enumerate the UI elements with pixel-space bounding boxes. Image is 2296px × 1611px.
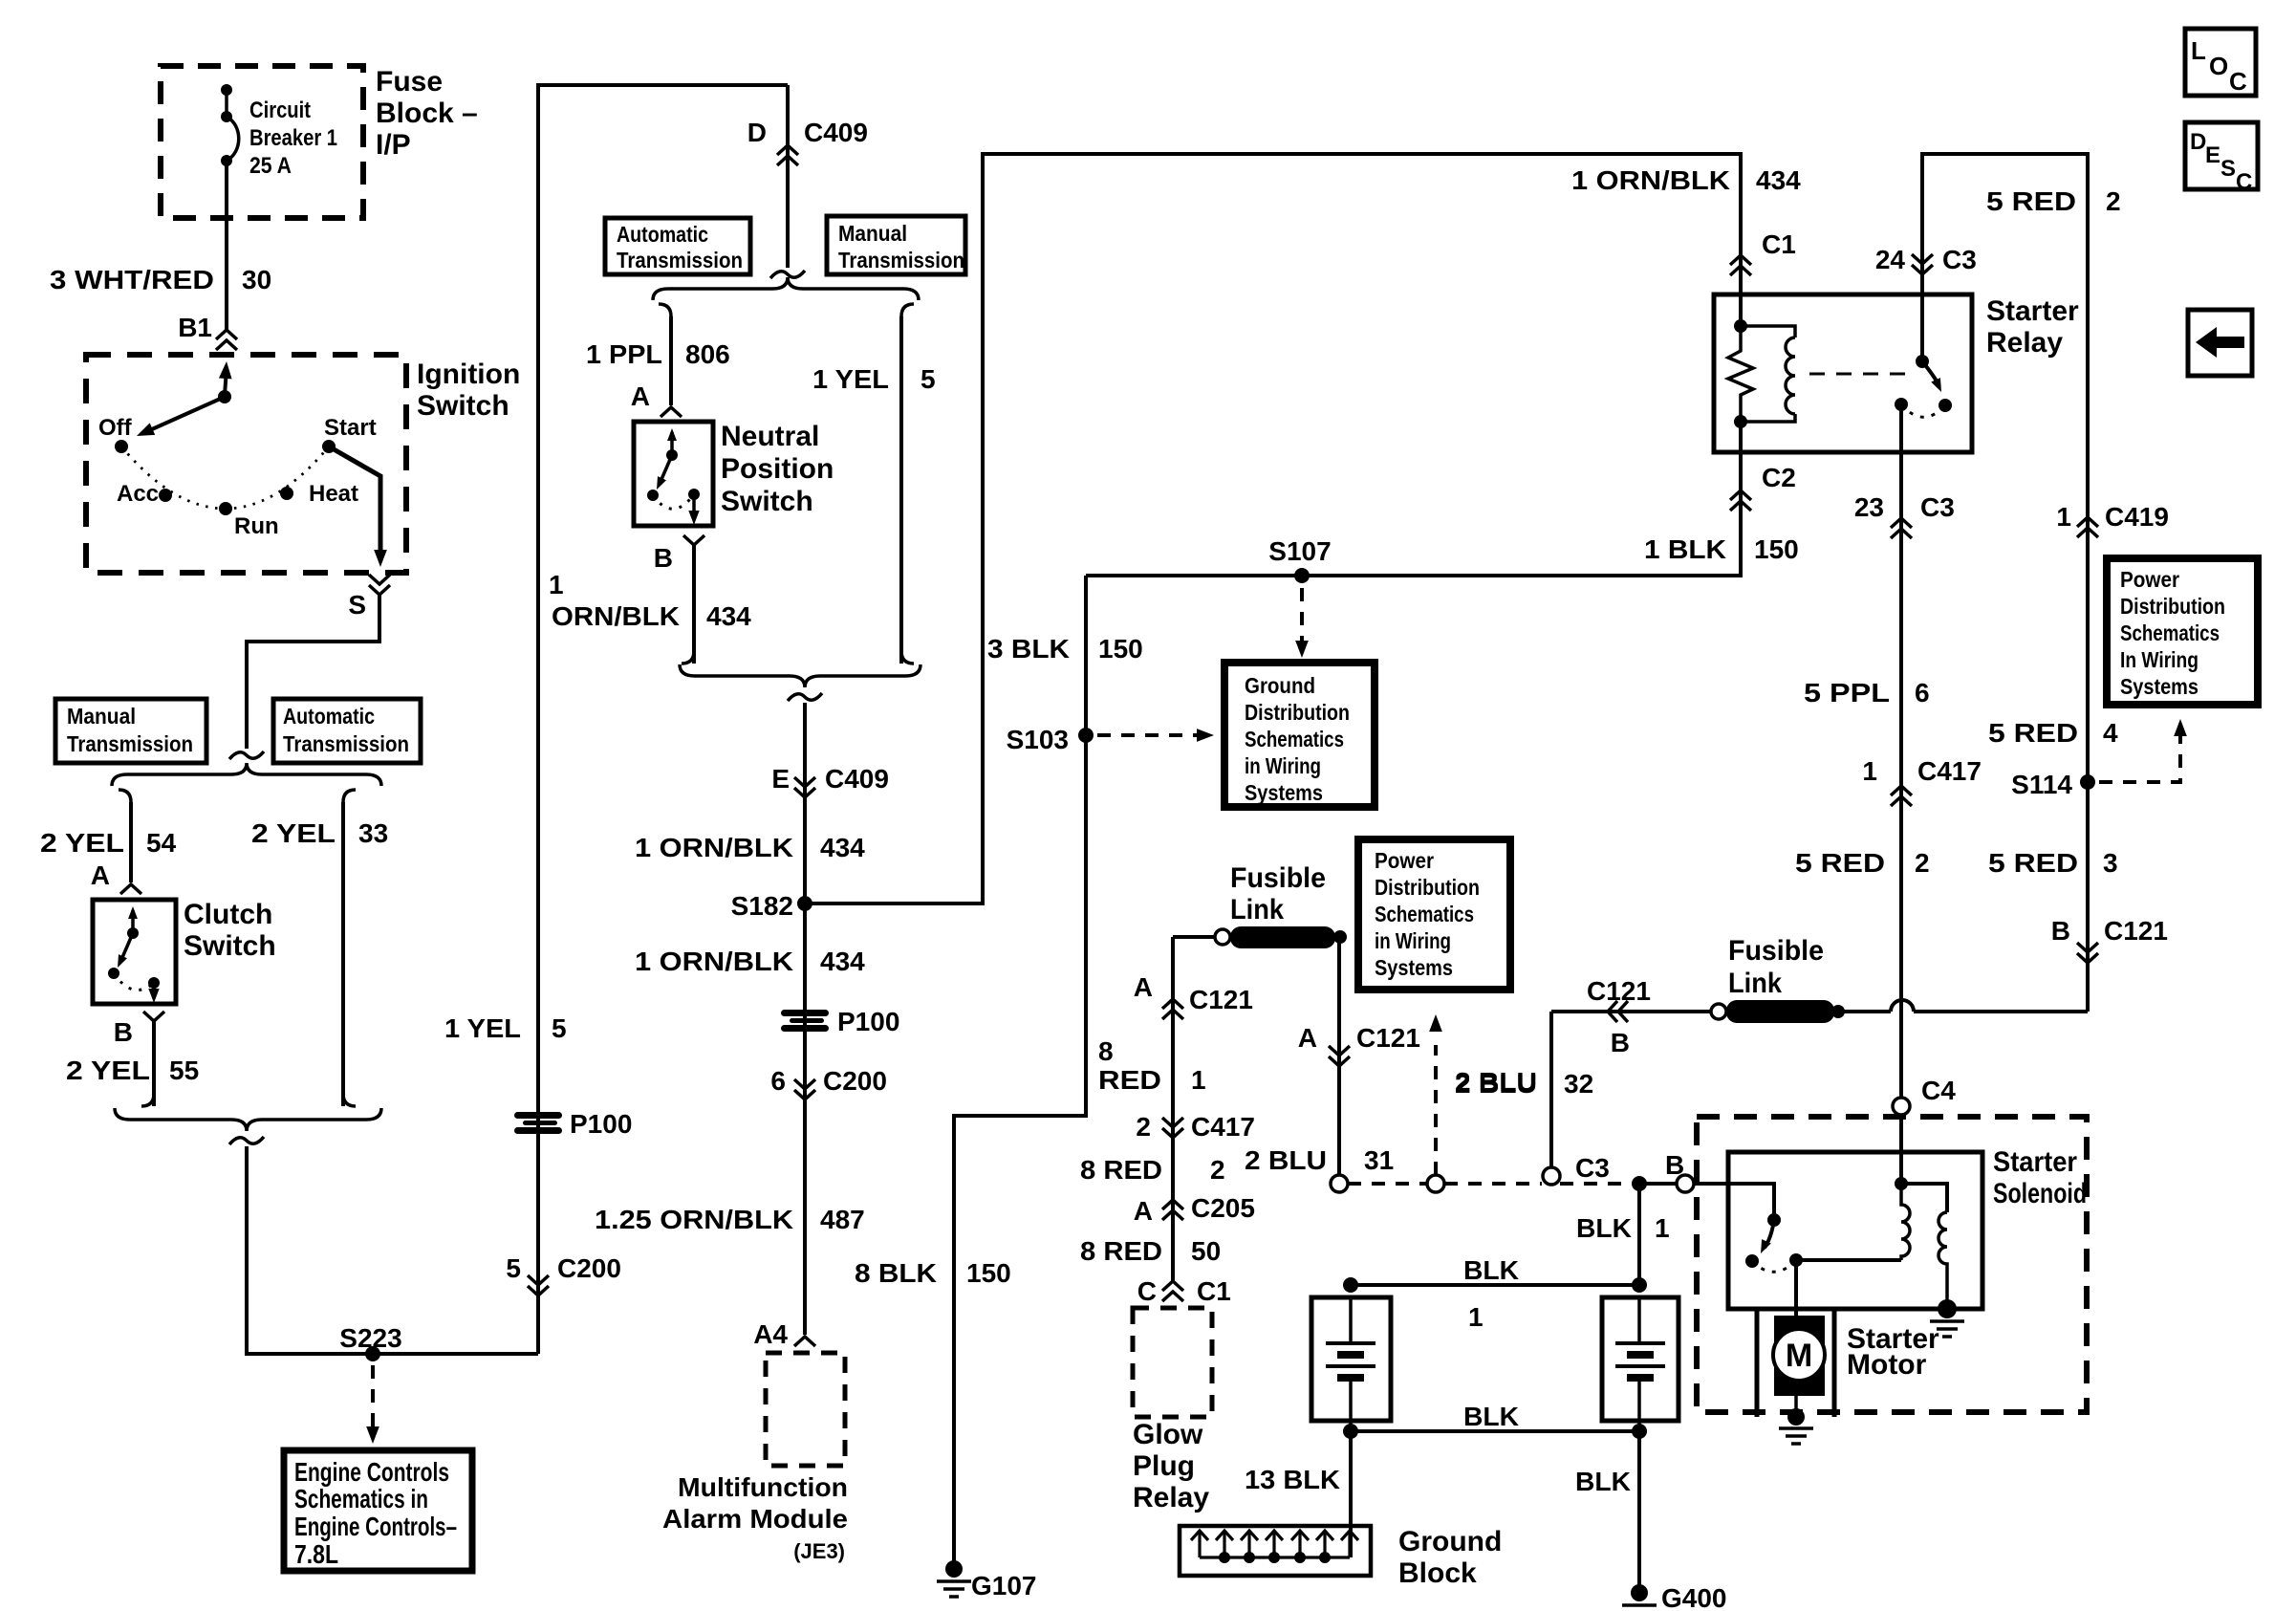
svg-text:1: 1	[2056, 502, 2071, 532]
svg-text:3: 3	[2103, 848, 2118, 878]
svg-text:1 BLK: 1 BLK	[1644, 534, 1726, 564]
svg-text:E: E	[2205, 142, 2220, 168]
svg-text:5 RED: 5 RED	[1986, 186, 2076, 216]
svg-text:C121: C121	[1189, 985, 1253, 1014]
svg-text:S: S	[348, 590, 366, 620]
wire circuit breaker to B1	[225, 161, 228, 330]
svg-text:D: D	[2190, 129, 2206, 155]
ignition position Off	[115, 440, 128, 453]
battery bottom bus BLK	[1351, 1429, 1639, 1433]
svg-text:Engine Controls: Engine Controls	[294, 1457, 449, 1487]
wire 2 YEL 55	[152, 1021, 156, 1106]
svg-text:Starter: Starter	[1986, 295, 2079, 327]
starter solenoid dashed box	[1697, 1117, 2087, 1412]
Manual Transmission label box (left)	[55, 699, 206, 763]
svg-text:A: A	[1134, 972, 1153, 1002]
tilde below bottom brace	[229, 1137, 264, 1144]
svg-text:Transmission: Transmission	[283, 731, 409, 756]
svg-text:I/P: I/P	[376, 129, 411, 161]
svg-text:7.8L: 7.8L	[294, 1539, 338, 1569]
tilde above left transmission brace	[229, 751, 264, 759]
svg-text:C121: C121	[1356, 1023, 1420, 1053]
wire S114 down to B C121	[2086, 782, 2090, 1012]
svg-text:Link: Link	[1728, 968, 1782, 999]
svg-text:Block: Block	[1398, 1557, 1477, 1589]
battery 2	[1632, 1277, 1647, 1293]
svg-text:8 RED: 8 RED	[1080, 1155, 1162, 1185]
svg-text:Switch: Switch	[417, 390, 509, 422]
svg-text:23: 23	[1854, 492, 1884, 522]
svg-text:BLK: BLK	[1575, 1467, 1631, 1496]
svg-text:Manual: Manual	[67, 704, 136, 729]
svg-text:13 BLK: 13 BLK	[1245, 1465, 1340, 1494]
svg-text:1: 1	[1862, 756, 1877, 786]
ignition position Run	[219, 502, 232, 515]
svg-text:Power: Power	[2120, 567, 2179, 592]
svg-text:Solenoid: Solenoid	[1993, 1178, 2087, 1209]
svg-text:Position: Position	[721, 453, 834, 485]
svg-text:Off: Off	[98, 415, 133, 441]
svg-text:C3: C3	[1575, 1153, 1610, 1183]
battery 1	[1343, 1277, 1358, 1293]
wire fusible link to C121 chevron	[1551, 1010, 1711, 1013]
ignition rotary dotted arc	[121, 446, 329, 509]
svg-text:Automatic: Automatic	[283, 704, 375, 729]
svg-text:Relay: Relay	[1133, 1482, 1209, 1513]
ground G107	[945, 1560, 963, 1578]
svg-text:C3: C3	[1920, 492, 1955, 522]
svg-text:33: 33	[358, 818, 388, 848]
svg-text:8 BLK: 8 BLK	[855, 1258, 937, 1288]
svg-text:2 BLU: 2 BLU	[1245, 1145, 1327, 1175]
ground block arrows	[1198, 1532, 1201, 1557]
wire C4 into starter solenoid	[1899, 1115, 1903, 1184]
svg-text:5: 5	[921, 364, 936, 394]
svg-text:1: 1	[1468, 1302, 1484, 1332]
dashed arrow S223 to engine controls	[371, 1365, 375, 1428]
svg-text:C409: C409	[804, 118, 868, 147]
svg-text:C: C	[2236, 169, 2252, 195]
svg-text:G107: G107	[971, 1571, 1037, 1600]
node S107	[1294, 568, 1310, 583]
ground block box	[1180, 1526, 1371, 1576]
connector C1 starter relay	[1730, 255, 1751, 275]
svg-text:2: 2	[1915, 848, 1930, 878]
Automatic Transmission label box (left)	[273, 699, 421, 763]
svg-text:S: S	[2220, 156, 2236, 182]
svg-text:C: C	[1137, 1276, 1157, 1306]
power distribution schematics reference box (right)	[2107, 558, 2258, 705]
wire 1 PPL 806 branch	[659, 304, 671, 316]
power distribution schematics reference box (middle)	[1358, 839, 1510, 990]
svg-text:2 YEL: 2 YEL	[251, 818, 336, 848]
clutch switch contacts	[131, 910, 135, 931]
dashed arrow S107 to ground distribution box	[1300, 588, 1304, 642]
svg-text:806: 806	[685, 339, 730, 369]
dashed arrow S103 to ground distribution box	[1097, 733, 1197, 737]
svg-text:C200: C200	[557, 1253, 621, 1283]
svg-text:Start: Start	[324, 415, 377, 441]
svg-text:Relay: Relay	[1986, 327, 2063, 359]
ignition position Heat	[280, 487, 293, 500]
solenoid coil ground	[1938, 1299, 1957, 1318]
svg-text:A4: A4	[753, 1319, 788, 1349]
svg-text:S114: S114	[2011, 770, 2072, 799]
connector B C121	[2077, 943, 2098, 963]
svg-text:RED: RED	[1098, 1065, 1161, 1095]
svg-text:32: 32	[1564, 1069, 1593, 1099]
svg-text:Glow: Glow	[1133, 1419, 1203, 1450]
svg-text:Neutral: Neutral	[721, 421, 819, 452]
svg-text:5: 5	[506, 1253, 521, 1283]
connector E C409	[794, 777, 815, 797]
svg-text:3 WHT/RED: 3 WHT/RED	[50, 265, 214, 294]
svg-text:5 RED: 5 RED	[1795, 848, 1885, 878]
svg-text:Schematics in: Schematics in	[294, 1484, 428, 1513]
clutch switch box	[93, 900, 176, 1004]
brace joining neutral switch branches (middle bottom)	[680, 664, 921, 687]
svg-text:8 RED: 8 RED	[1080, 1236, 1162, 1266]
DESC legend box	[2185, 122, 2258, 189]
Automatic Transmission label box (middle)	[605, 218, 750, 274]
svg-text:Breaker 1: Breaker 1	[249, 125, 337, 151]
svg-text:S223: S223	[339, 1323, 401, 1353]
svg-text:150: 150	[966, 1258, 1011, 1288]
node S114	[2080, 774, 2095, 790]
svg-text:BLK: BLK	[1463, 1255, 1519, 1285]
wire battery2 to G400	[1637, 1431, 1641, 1593]
svg-text:2 YEL: 2 YEL	[66, 1056, 150, 1085]
svg-text:L: L	[2191, 36, 2206, 65]
wire battery1 to ground block	[1349, 1431, 1353, 1557]
svg-text:B: B	[654, 543, 673, 573]
svg-text:Link: Link	[1230, 894, 1284, 925]
connector A clutch switch	[120, 884, 141, 894]
svg-text:In Wiring: In Wiring	[2120, 647, 2199, 672]
svg-text:31: 31	[1364, 1145, 1394, 1175]
node S182	[797, 896, 812, 911]
svg-text:C: C	[2229, 67, 2247, 96]
svg-text:Ground: Ground	[1245, 673, 1315, 698]
relay switch	[1920, 294, 1924, 359]
wire 8 RED 1 down to C C1	[1171, 937, 1175, 1281]
wire top corner down through D connector to brace	[786, 85, 790, 268]
wire fusible link (middle) down to open circle 31	[1337, 937, 1341, 1175]
open circle junction (32)	[1543, 1167, 1560, 1185]
svg-text:50: 50	[1191, 1236, 1221, 1266]
open circle junction (middle)	[1427, 1175, 1444, 1192]
circuit breaker 1 25A	[221, 84, 232, 96]
svg-text:434: 434	[820, 947, 865, 976]
relay dashed actuator line	[1809, 373, 1914, 376]
svg-text:C121: C121	[2104, 916, 2168, 946]
neutral position switch contacts	[670, 432, 674, 453]
svg-text:C409: C409	[825, 764, 889, 794]
dashed arrow S114 to power distribution box	[2099, 734, 2180, 782]
svg-text:5: 5	[552, 1013, 567, 1043]
wire S to transmission brace	[247, 595, 379, 749]
wire 1 YEL 5 branch (middle)	[901, 304, 914, 316]
svg-text:2 BLU: 2 BLU	[1455, 1067, 1537, 1097]
connector A neutral position switch	[661, 407, 682, 417]
node S223	[365, 1346, 380, 1361]
wire brace to S223	[247, 1146, 538, 1354]
wire relay switch down through 23 C3 and 1 C417 to C4	[1899, 404, 1903, 1098]
connector B1	[216, 330, 237, 350]
svg-text:Starter: Starter	[1993, 1146, 2077, 1178]
connector C C1	[1162, 1281, 1183, 1301]
svg-text:Schematics: Schematics	[1245, 727, 1344, 751]
svg-text:D: D	[747, 118, 767, 147]
svg-text:Engine Controls–: Engine Controls–	[294, 1512, 457, 1541]
svg-text:2: 2	[1136, 1112, 1151, 1142]
svg-text:Circuit: Circuit	[249, 98, 311, 123]
svg-text:6: 6	[770, 1066, 786, 1096]
starter motor housing	[1755, 1309, 1760, 1417]
svg-text:B: B	[1665, 1150, 1684, 1180]
svg-text:Ignition: Ignition	[417, 359, 520, 390]
svg-text:B: B	[1611, 1028, 1630, 1057]
svg-text:C1: C1	[1197, 1276, 1231, 1306]
starter motor ground	[1794, 1396, 1798, 1417]
open circle junction (31)	[1331, 1175, 1348, 1192]
svg-text:in Wiring: in Wiring	[1245, 753, 1321, 778]
grommet P100 middle	[781, 1010, 829, 1032]
svg-text:Heat: Heat	[309, 481, 358, 507]
svg-text:1: 1	[1191, 1065, 1206, 1095]
svg-text:Acc: Acc	[117, 481, 159, 507]
relay resistor	[1739, 294, 1743, 326]
svg-text:434: 434	[1756, 165, 1801, 195]
svg-text:5 PPL: 5 PPL	[1804, 678, 1890, 708]
wire 2 YEL 54 branch	[119, 790, 131, 802]
connector 5 C200	[528, 1275, 549, 1295]
connector B neutral position switch	[683, 535, 704, 545]
svg-text:Systems: Systems	[1245, 780, 1323, 805]
ground G400	[1631, 1584, 1648, 1601]
svg-text:1 ORN/BLK: 1 ORN/BLK	[635, 947, 793, 976]
svg-text:Plug: Plug	[1133, 1450, 1195, 1482]
svg-text:C2: C2	[1762, 463, 1796, 492]
svg-text:Transmission: Transmission	[838, 248, 964, 272]
svg-text:1 YEL: 1 YEL	[444, 1013, 521, 1043]
svg-text:G400: G400	[1661, 1583, 1727, 1611]
svg-text:4: 4	[2103, 718, 2118, 748]
svg-text:Fuse: Fuse	[376, 66, 443, 98]
connector C4 open circle	[1893, 1098, 1910, 1115]
svg-text:Clutch: Clutch	[184, 899, 272, 930]
Manual Transmission label box (middle)	[827, 216, 965, 274]
connector C2 starter relay	[1730, 490, 1751, 511]
svg-text:1: 1	[1655, 1213, 1670, 1243]
solenoid B terminal open circle	[1677, 1175, 1694, 1192]
connector D C409	[777, 145, 798, 165]
connector B C121 (left-pointing)	[1608, 1001, 1628, 1022]
wire down to 2 BLU 32 open circle	[1549, 1012, 1553, 1168]
connector A C121 (down)	[1329, 1046, 1350, 1066]
svg-text:P100: P100	[570, 1109, 632, 1139]
battery top bus BLK 1	[1351, 1283, 1639, 1287]
svg-text:Fusible: Fusible	[1230, 862, 1326, 894]
svg-text:A: A	[91, 860, 110, 890]
starter motor M circle	[1773, 1329, 1825, 1381]
svg-text:54: 54	[146, 828, 177, 858]
Engine Controls reference box	[284, 1450, 472, 1571]
connector A4 multifunction alarm module	[794, 1337, 815, 1346]
svg-text:Alarm Module: Alarm Module	[662, 1504, 848, 1534]
wire 2 YEL 33 branch	[343, 790, 356, 802]
ignition position Start	[322, 440, 336, 453]
svg-text:P100: P100	[837, 1007, 899, 1036]
svg-text:Transmission: Transmission	[67, 731, 193, 756]
svg-text:1: 1	[549, 570, 564, 599]
svg-text:C4: C4	[1921, 1076, 1956, 1105]
wire junction down to battery bus	[1637, 1184, 1641, 1285]
svg-text:A: A	[1298, 1023, 1317, 1053]
grommet P100 left	[514, 1112, 562, 1134]
connector A C205	[1162, 1200, 1183, 1220]
svg-text:6: 6	[1915, 678, 1930, 708]
brace grouping transmissions (middle)	[653, 277, 919, 300]
solenoid hold-in coil	[1939, 1212, 1947, 1309]
svg-text:Multifunction: Multifunction	[678, 1472, 848, 1502]
solenoid switch	[1767, 1213, 1781, 1227]
svg-text:BLK: BLK	[1576, 1213, 1632, 1243]
wire 1 ORN/BLK 434 below neutral switch	[692, 545, 696, 664]
wire switch contact to starter motor	[1794, 1260, 1798, 1322]
wire B into solenoid switch	[1694, 1184, 1774, 1220]
svg-text:Power: Power	[1375, 848, 1434, 873]
connector A C121 (up)	[1162, 999, 1183, 1019]
svg-text:5 RED: 5 RED	[1988, 848, 2078, 878]
svg-text:Switch: Switch	[184, 930, 276, 962]
svg-text:Systems: Systems	[1375, 955, 1453, 980]
LOC legend box	[2185, 29, 2256, 96]
svg-text:ORN/BLK: ORN/BLK	[552, 601, 680, 631]
connector 6 C200	[794, 1079, 815, 1099]
svg-text:1 ORN/BLK: 1 ORN/BLK	[1571, 165, 1730, 195]
svg-text:2 YEL: 2 YEL	[40, 828, 124, 858]
node S103	[1078, 728, 1094, 743]
fuse block I/P dashed box	[161, 66, 363, 218]
svg-text:M: M	[1786, 1338, 1812, 1374]
ignition position Acc	[159, 489, 172, 502]
connector 1 C417	[1891, 786, 1912, 806]
svg-text:B: B	[114, 1017, 133, 1047]
node B junction	[1632, 1176, 1647, 1191]
svg-text:24: 24	[1875, 245, 1906, 274]
svg-text:A: A	[631, 381, 650, 411]
svg-text:S107: S107	[1268, 536, 1331, 566]
wire Start to S output	[329, 446, 380, 558]
svg-text:C200: C200	[823, 1066, 887, 1096]
svg-text:434: 434	[706, 601, 751, 631]
ignition switch dashed box	[86, 355, 406, 573]
svg-text:2: 2	[2106, 186, 2121, 216]
svg-text:Systems: Systems	[2120, 674, 2199, 699]
starter relay box	[1714, 294, 1972, 452]
back arrow box	[2188, 310, 2252, 376]
svg-text:C121: C121	[1587, 976, 1651, 1006]
svg-text:S182: S182	[731, 891, 793, 921]
svg-text:C205: C205	[1191, 1193, 1255, 1223]
wire fusible link to A C121 (left)	[1173, 935, 1215, 939]
svg-text:Transmission: Transmission	[617, 248, 743, 272]
fusible link (right)	[1831, 1005, 1845, 1018]
wire 1 YEL 5 vertical	[538, 85, 788, 1354]
brace grouping manual/automatic (left)	[112, 763, 381, 786]
wire to E C409 through S182 down to A4	[803, 703, 807, 1335]
wire S107 line to S103 to G107	[954, 576, 1086, 1569]
svg-text:Block –: Block –	[376, 98, 478, 129]
svg-text:Automatic: Automatic	[617, 222, 708, 247]
connector 23 C3	[1891, 518, 1912, 538]
svg-text:1 ORN/BLK: 1 ORN/BLK	[635, 833, 793, 862]
connector S	[369, 575, 390, 595]
svg-text:Fusible: Fusible	[1728, 935, 1824, 967]
svg-text:Schematics: Schematics	[2120, 620, 2220, 645]
dashed jumper between open circles	[1348, 1182, 1427, 1186]
svg-text:434: 434	[820, 833, 865, 862]
svg-text:Distribution: Distribution	[1245, 700, 1350, 725]
svg-text:1 YEL: 1 YEL	[812, 364, 889, 394]
svg-text:Schematics: Schematics	[1375, 902, 1474, 926]
wire to hold-in coil	[1901, 1184, 1947, 1212]
svg-text:S103: S103	[1007, 725, 1069, 754]
svg-text:25 A: 25 A	[249, 153, 292, 179]
multifunction alarm module dashed box	[766, 1353, 845, 1466]
svg-text:E: E	[771, 764, 790, 794]
svg-text:Motor: Motor	[1847, 1349, 1927, 1381]
svg-text:Ground: Ground	[1398, 1526, 1502, 1557]
svg-text:Distribution: Distribution	[2120, 594, 2225, 619]
svg-text:Manual: Manual	[838, 221, 907, 246]
svg-text:Distribution: Distribution	[1375, 875, 1480, 900]
wire junction to starter solenoid B terminal	[1639, 1182, 1677, 1186]
neutral position switch box	[634, 422, 713, 526]
svg-text:C3: C3	[1942, 245, 1977, 274]
svg-text:487: 487	[820, 1205, 865, 1234]
svg-text:55: 55	[169, 1056, 199, 1085]
svg-text:C417: C417	[1917, 756, 1982, 786]
dashed arrow up to power distribution box (middle)	[1434, 1045, 1438, 1175]
wire B C121 down to fusible link row	[1914, 1010, 2088, 1013]
svg-text:8: 8	[1098, 1036, 1114, 1066]
fusible link (middle)	[1333, 930, 1347, 944]
svg-text:5 RED: 5 RED	[1988, 718, 2078, 748]
wire S107 horizontal 1 BLK 150	[1086, 452, 1741, 576]
svg-text:A: A	[1134, 1196, 1153, 1226]
wire S182 to starter relay C1	[805, 154, 1741, 903]
svg-text:BLK: BLK	[1463, 1402, 1519, 1431]
svg-text:3 BLK: 3 BLK	[987, 634, 1070, 664]
wire hop over 5 RED vertical	[1891, 1000, 1914, 1012]
tilde above middle brace	[770, 271, 805, 278]
svg-text:O: O	[2209, 52, 2228, 80]
svg-text:1.25 ORN/BLK: 1.25 ORN/BLK	[595, 1205, 793, 1234]
connector 2 C417	[1162, 1118, 1183, 1138]
glow plug relay dashed box	[1133, 1308, 1212, 1417]
svg-text:(JE3): (JE3)	[793, 1539, 845, 1563]
svg-text:150: 150	[1098, 634, 1143, 664]
svg-text:1 PPL: 1 PPL	[586, 339, 662, 369]
svg-text:150: 150	[1754, 534, 1799, 564]
svg-text:C417: C417	[1191, 1112, 1255, 1142]
ignition switch wiper arm	[225, 369, 227, 395]
svg-text:C1: C1	[1762, 229, 1796, 259]
brace joining clutch branches (bottom left)	[115, 1108, 381, 1131]
svg-text:30: 30	[242, 265, 271, 294]
